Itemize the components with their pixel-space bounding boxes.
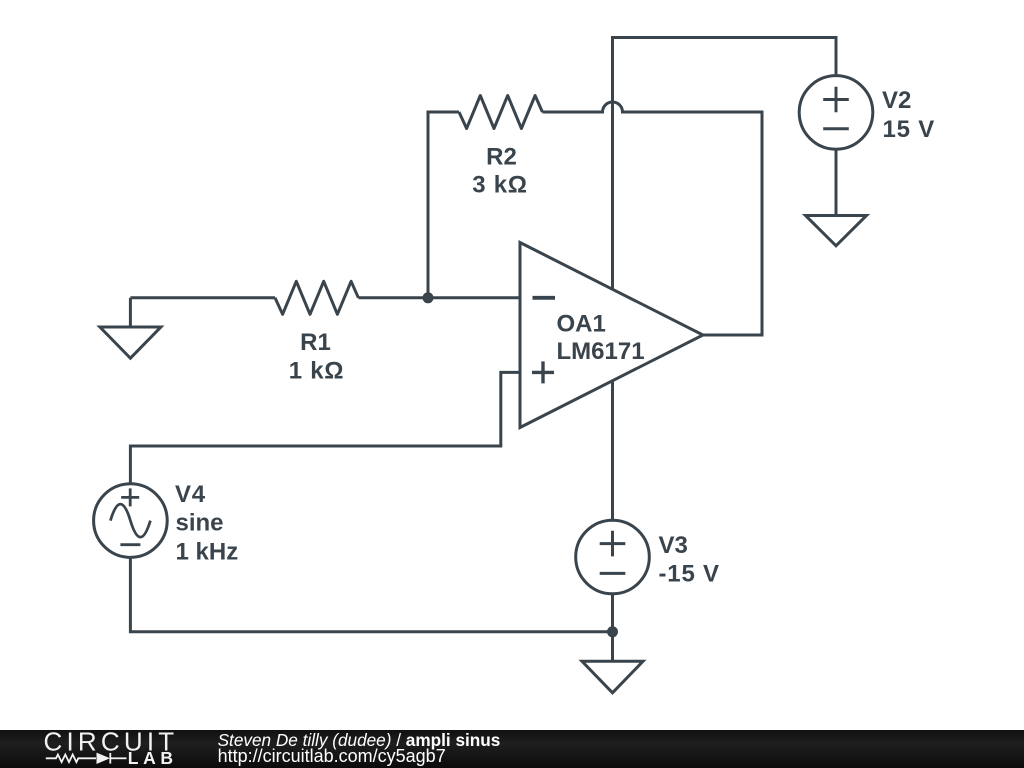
V3 labels bbox=[659, 532, 720, 588]
junction node dot at R1 / R2 tap bbox=[423, 292, 434, 303]
R2 value label bbox=[472, 144, 527, 199]
wire from op-amp non-inverting input to V4 plus bbox=[130, 372, 520, 483]
logo mini schematic wire with resistor and diode bbox=[46, 753, 127, 764]
ground G1 (left of R1) bbox=[100, 298, 161, 358]
wire from V3 minus to bottom junction bbox=[611, 594, 614, 631]
ground G2 (under V2) bbox=[806, 216, 867, 246]
resistor R2 bbox=[459, 96, 542, 129]
wire from V2 minus to ground G2 bbox=[835, 150, 838, 216]
wire from V4 minus along bottom to junction bbox=[130, 558, 612, 632]
wire op-amp V- pin down to V3 bbox=[611, 381, 614, 520]
svg-text:http://circuitlab.com/cy5agb7: http://circuitlab.com/cy5agb7 bbox=[218, 746, 446, 766]
op-amp non-inverting input plus symbol bbox=[532, 361, 554, 383]
R1 value label bbox=[289, 329, 344, 384]
svg-text:LAB: LAB bbox=[128, 748, 178, 768]
wire from ground G1 to R1 left lead bbox=[130, 296, 275, 299]
op-amp OA1 triangle bbox=[520, 243, 703, 428]
voltage source V3 bbox=[576, 520, 650, 594]
resistor R1 bbox=[275, 281, 358, 314]
op-amp inverting input minus symbol bbox=[533, 296, 556, 300]
V2 labels bbox=[882, 87, 935, 143]
junction node dot at V3 / V4 bottom net bbox=[607, 626, 618, 637]
wire from R2 right lead with hop over supply wire, down to op-amp output bbox=[542, 102, 762, 335]
footer black bar bbox=[0, 730, 1024, 768]
logo diode triangle bbox=[97, 753, 111, 764]
wire from junction up to R2 left lead bbox=[428, 112, 459, 298]
wire from R1 to op-amp inverting input (node with junction) bbox=[358, 296, 520, 299]
ground G3 (under V3) bbox=[582, 632, 643, 693]
wire top supply rail from op-amp V+ to V2 bbox=[613, 38, 837, 290]
voltage source V2 bbox=[799, 76, 873, 150]
OA1 labels bbox=[557, 311, 645, 366]
voltage source V4 (sine) bbox=[94, 484, 168, 558]
V4 labels bbox=[175, 481, 238, 565]
